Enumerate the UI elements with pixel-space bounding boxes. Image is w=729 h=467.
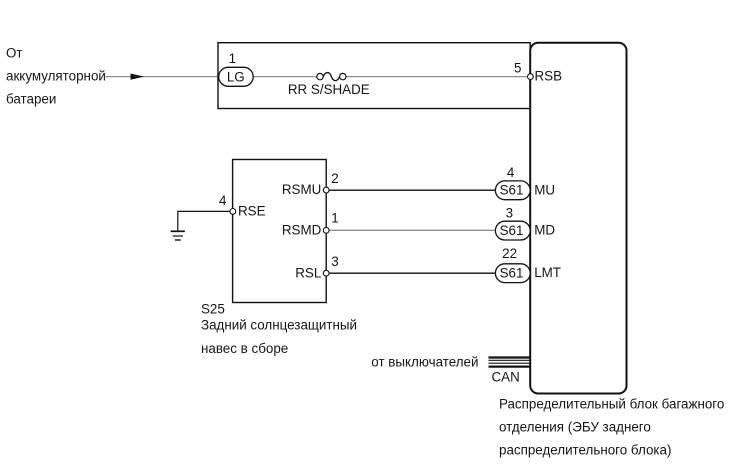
svg-text:3: 3 (506, 206, 513, 221)
CAN bus lines into ECU block (489, 358, 531, 367)
svg-text:RSL: RSL (295, 265, 321, 280)
svg-text:S25: S25 (201, 301, 225, 316)
svg-text:4: 4 (219, 193, 227, 208)
pin 4 RSE on S25 (219, 193, 266, 219)
svg-text:MD: MD (534, 223, 555, 238)
wire: RSL to S61 (black) (326, 272, 496, 274)
svg-text:S61: S61 (500, 266, 524, 281)
circuit breaker RR S/SHADE (288, 73, 370, 97)
svg-text:1: 1 (331, 210, 338, 225)
connector S61 LMT, pin 22 (495, 246, 561, 283)
svg-text:4: 4 (507, 165, 515, 180)
svg-text:батареи: батареи (6, 92, 56, 107)
svg-text:Распределительный блок багажно: Распределительный блок багажного (499, 397, 724, 412)
pin 1 RSMD on S25 (282, 210, 339, 237)
svg-text:От: От (6, 46, 23, 61)
svg-text:RSMD: RSMD (282, 222, 322, 237)
node: S25 component caption (201, 301, 357, 356)
connector LG, pin 1 (219, 51, 254, 86)
connector S61 MD, pin 3 (495, 206, 555, 241)
ECU block: rear junction block (rounded) (530, 43, 626, 394)
wire: battery feed (gray) from label to circuit breaker (106, 76, 319, 78)
junction box (relay/fuse box) outline (218, 43, 530, 109)
pin 5 RSB on ECU block (514, 60, 562, 83)
component S25 box: rear sunshade assembly (233, 160, 327, 303)
ground symbol (171, 231, 185, 240)
wire: circuit breaker to pin 5 (gray) (345, 76, 529, 78)
svg-text:CAN: CAN (492, 370, 520, 385)
svg-text:от выключателей: от выключателей (371, 355, 478, 370)
svg-text:Задний солнцезащитный: Задний солнцезащитный (201, 317, 357, 332)
svg-text:MU: MU (534, 182, 555, 197)
svg-text:22: 22 (502, 246, 517, 261)
connector S61 MU, pin 4 (495, 165, 555, 200)
svg-text:2: 2 (331, 171, 338, 186)
svg-text:навес в сборе: навес в сборе (201, 341, 288, 356)
svg-text:3: 3 (331, 254, 338, 269)
svg-text:5: 5 (514, 60, 521, 75)
svg-text:RSB: RSB (535, 69, 563, 84)
svg-text:1: 1 (229, 51, 236, 66)
svg-text:LMT: LMT (534, 265, 561, 280)
wire: RSMU to S61 (black) (326, 189, 496, 191)
svg-text:аккумуляторной: аккумуляторной (6, 69, 106, 84)
node: ECU block caption (499, 397, 724, 458)
wire: RSMD to S61 (gray) (326, 229, 496, 231)
arrow: current direction on battery feed (131, 74, 145, 80)
svg-text:S61: S61 (500, 223, 524, 238)
svg-text:S61: S61 (500, 183, 524, 198)
svg-text:отделения (ЭБУ заднего: отделения (ЭБУ заднего (499, 420, 651, 435)
svg-text:RR S/SHADE: RR S/SHADE (288, 82, 370, 97)
pin 2 RSMU on S25 (282, 171, 339, 197)
wire: RSE to ground (178, 211, 233, 231)
svg-text:RSMU: RSMU (282, 182, 321, 197)
svg-text:LG: LG (227, 69, 245, 84)
svg-text:распределительного блока): распределительного блока) (499, 443, 671, 458)
pin 3 RSL on S25 (295, 254, 338, 280)
node: battery feed label "От аккумуляторной батареи" (6, 46, 106, 107)
svg-text:RSE: RSE (238, 204, 266, 219)
